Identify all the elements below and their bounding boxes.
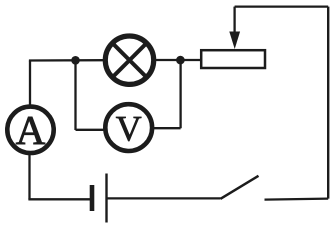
wire: top-left horizontal from corner through node to lamp [29,59,104,62]
wire: left vertical from top-left corner down to ammeter top [29,61,31,107]
rheostat R1 body [201,50,265,68]
rheostat wiper arrowhead [229,32,240,50]
battery positive plate (long thin) [105,174,107,223]
switch S1 blade (open) [221,176,259,199]
ammeter A1 circle [7,107,53,153]
node B junction dot [176,56,185,65]
wire: top horizontal to rheostat wiper [235,5,329,7]
battery negative plate (short thick) [90,185,95,211]
wire: bottom-left horizontal to battery [28,198,90,200]
wire: lamp right horizontal through node B to rheostat [155,59,201,61]
wire: voltmeter left horizontal [76,129,105,131]
wire: node B vertical down [179,60,181,128]
wire: node A vertical down to voltmeter left [74,60,76,130]
lamp L1 (circle with X) [105,36,153,84]
wire: right vertical side [327,7,329,199]
node A junction dot [71,56,80,65]
voltmeter V1 circle [105,104,152,151]
voltmeter letter V [116,117,141,141]
wire: bottom horizontal from battery to switch pivot [108,197,221,199]
wire: left vertical from ammeter bottom to bottom-left corner [28,154,30,200]
ammeter letter A [16,117,45,144]
wire: voltmeter right horizontal [154,127,181,129]
wire: switch right contact to bottom-right corner [265,199,329,200]
wire: rheostat wiper vertical drop [233,7,235,34]
